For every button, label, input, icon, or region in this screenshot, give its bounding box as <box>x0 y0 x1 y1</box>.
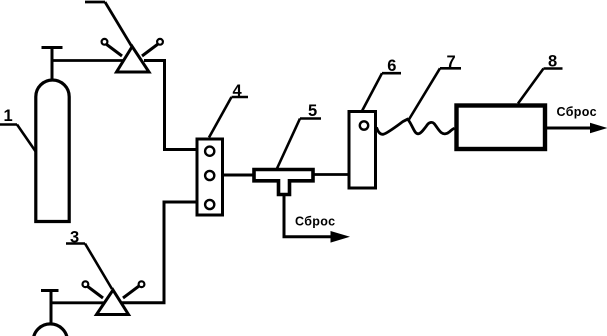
outlet arrow (Сброс right) <box>547 123 607 133</box>
label 1 <box>0 107 36 152</box>
wire block 4 to tee 5 <box>223 174 253 177</box>
wire valve 3 to block 4 <box>122 202 196 303</box>
block 8 <box>457 106 546 150</box>
label 4 <box>209 82 248 138</box>
cylinder 2 valve stem <box>41 291 59 325</box>
label 3 <box>66 229 112 290</box>
wire tee 5 to block 6 <box>315 173 350 176</box>
coil 7 <box>377 119 455 134</box>
label 7 <box>408 53 461 121</box>
block 6 <box>349 112 376 189</box>
svg-text:Сброс: Сброс <box>295 215 335 229</box>
valve block 4 <box>197 139 223 215</box>
wire cylinder 2 to valve 3 <box>51 301 107 304</box>
svg-text:Сброс: Сброс <box>557 105 597 119</box>
valve 3 <box>83 281 145 314</box>
label 5 <box>277 102 321 169</box>
tee 5 <box>254 170 313 195</box>
label 2 leader <box>85 2 132 46</box>
svg-text:1: 1 <box>4 107 13 125</box>
label 6 <box>362 57 401 111</box>
vent line with arrow (Сброс down) <box>284 195 350 243</box>
wire valve 2 to block 4 <box>144 61 196 150</box>
cylinder 1 valve stem <box>42 48 63 82</box>
gas cylinder 1 <box>36 80 69 222</box>
valve 2 <box>102 39 163 72</box>
gas cylinder 2 <box>33 324 67 336</box>
wire cylinder 1 to valve 2 <box>52 59 127 62</box>
label 8 <box>518 52 563 103</box>
